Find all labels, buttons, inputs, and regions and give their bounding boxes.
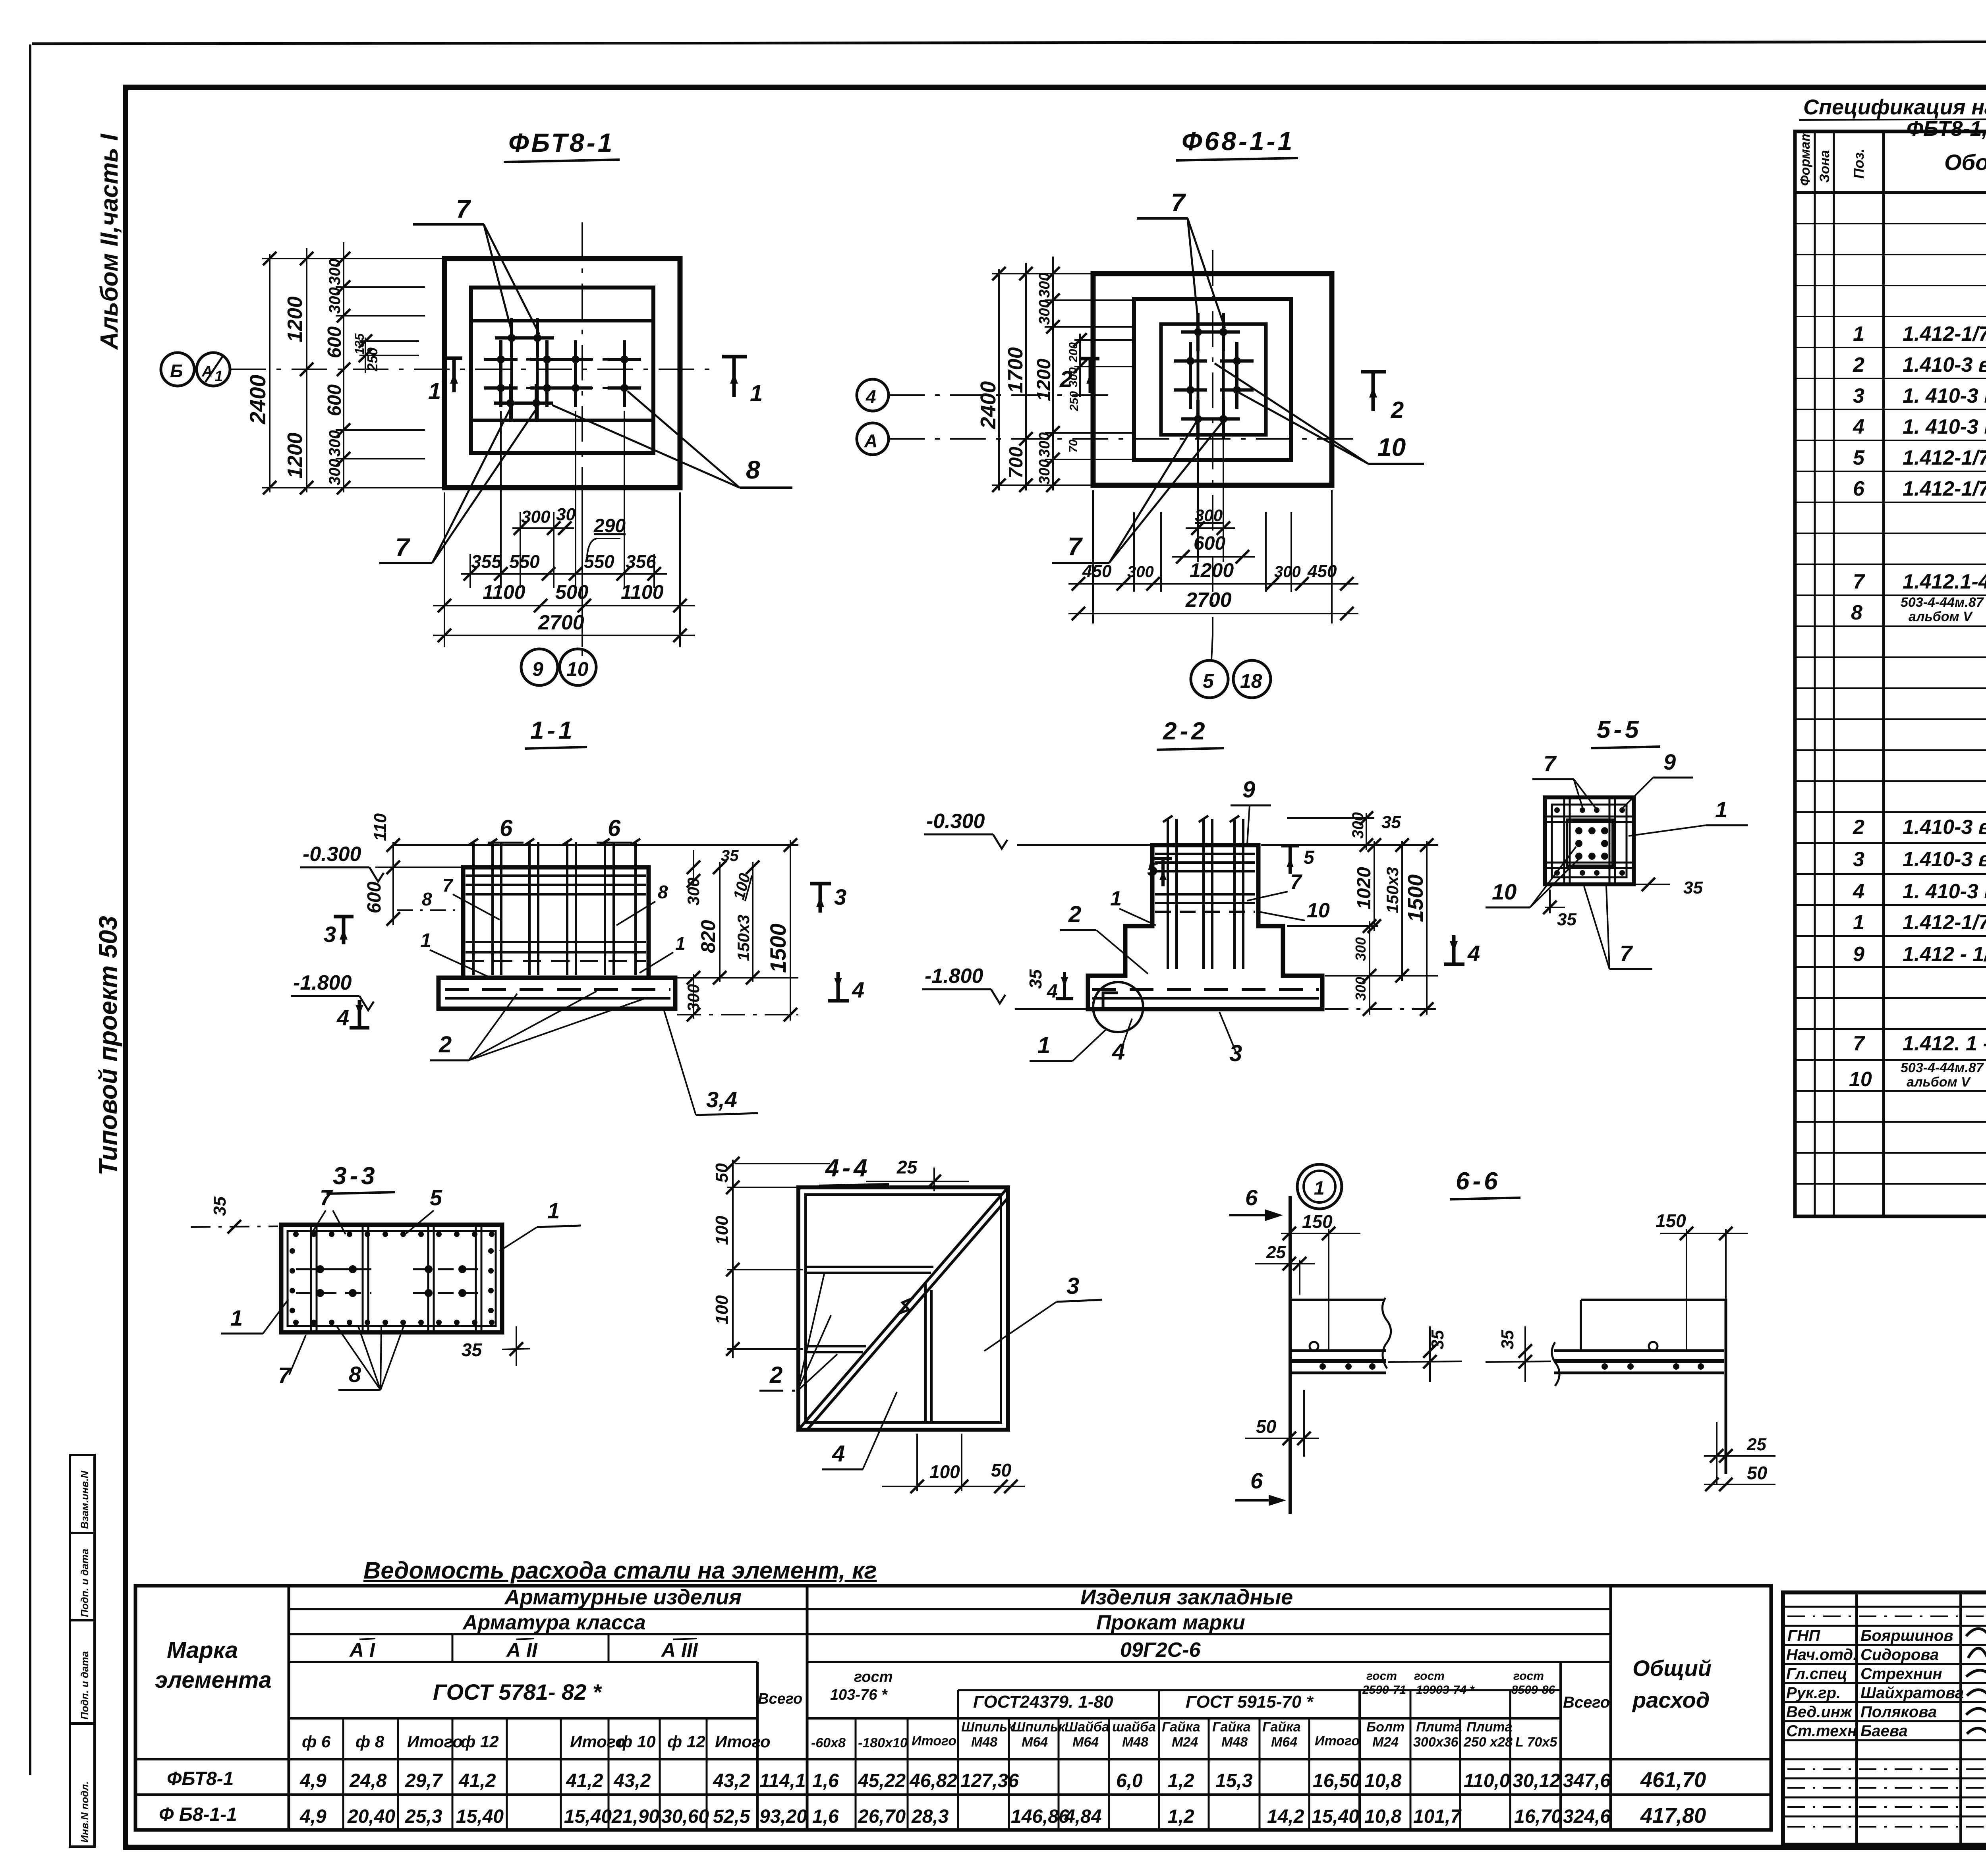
svg-text:Плита: Плита — [1416, 1720, 1462, 1735]
svg-text:2400: 2400 — [245, 374, 270, 425]
svg-text:7: 7 — [1620, 941, 1633, 966]
svg-text:1.410-3 вып.1: 1.410-3 вып.1 — [1903, 848, 1986, 871]
svg-text:450: 450 — [1307, 562, 1337, 581]
svg-text:6: 6 — [1250, 1468, 1263, 1493]
svg-text:5: 5 — [1304, 847, 1315, 868]
svg-text:Ст.техн: Ст.техн — [1786, 1722, 1857, 1740]
svg-text:Плита: Плита — [1466, 1720, 1513, 1735]
svg-text:150х3: 150х3 — [734, 915, 753, 961]
svg-text:А II: А II — [506, 1639, 538, 1661]
svg-text:М48: М48 — [971, 1735, 997, 1750]
svg-text:Итого: Итого — [912, 1733, 956, 1749]
svg-text:4,9: 4,9 — [299, 1770, 326, 1791]
svg-text:6,0: 6,0 — [1116, 1770, 1143, 1791]
svg-text:3: 3 — [1229, 1040, 1242, 1066]
svg-text:Гайка: Гайка — [1162, 1720, 1200, 1735]
svg-text:150х3: 150х3 — [1383, 867, 1402, 913]
svg-text:8: 8 — [658, 882, 668, 902]
svg-text:Бояршинов: Бояршинов — [1860, 1627, 1953, 1644]
svg-text:24,8: 24,8 — [349, 1770, 387, 1791]
svg-text:26,70: 26,70 — [858, 1806, 906, 1827]
svg-text:ФБТ8-1: ФБТ8-1 — [508, 128, 614, 157]
svg-text:4: 4 — [1047, 981, 1058, 1002]
svg-text:93,20: 93,20 — [759, 1806, 807, 1827]
svg-text:8: 8 — [746, 455, 760, 484]
svg-text:100: 100 — [712, 1216, 732, 1245]
svg-text:3,4: 3,4 — [706, 1087, 737, 1112]
svg-text:4,84: 4,84 — [1064, 1806, 1101, 1827]
svg-text:300: 300 — [1352, 977, 1369, 1001]
svg-text:1.410-3 вып.1: 1.410-3 вып.1 — [1903, 353, 1986, 376]
svg-text:1700: 1700 — [1004, 347, 1027, 393]
svg-text:Гл.спец: Гл.спец — [1786, 1665, 1847, 1683]
svg-text:А III: А III — [661, 1639, 698, 1661]
svg-text:Всего: Всего — [758, 1691, 802, 1707]
svg-text:Итого: Итого — [407, 1732, 463, 1751]
svg-text:4-4: 4-4 — [825, 1154, 871, 1182]
svg-text:127,36: 127,36 — [960, 1770, 1019, 1791]
svg-text:1500: 1500 — [765, 923, 790, 973]
svg-text:Шайхратова: Шайхратова — [1860, 1684, 1964, 1702]
svg-text:300: 300 — [326, 430, 344, 457]
svg-text:М48: М48 — [1122, 1735, 1148, 1750]
svg-text:гост: гост — [1366, 1669, 1397, 1683]
svg-text:1020: 1020 — [1354, 867, 1375, 909]
svg-text:7: 7 — [1853, 570, 1865, 593]
svg-text:3: 3 — [1853, 848, 1864, 871]
svg-text:300: 300 — [1195, 506, 1223, 525]
svg-text:8509-86: 8509-86 — [1511, 1683, 1555, 1697]
svg-text:М64: М64 — [1022, 1735, 1048, 1750]
svg-text:35: 35 — [1026, 969, 1045, 989]
svg-text:-0.300: -0.300 — [303, 843, 361, 866]
svg-text:1: 1 — [750, 380, 763, 406]
svg-text:820: 820 — [697, 920, 719, 953]
svg-text:гост: гост — [854, 1669, 893, 1685]
svg-text:300: 300 — [1036, 459, 1053, 484]
svg-text:300: 300 — [1067, 367, 1080, 387]
svg-text:30: 30 — [556, 505, 576, 524]
svg-text:Шайба: Шайба — [1064, 1720, 1109, 1735]
svg-text:250 х28: 250 х28 — [1463, 1735, 1513, 1750]
svg-text:35: 35 — [210, 1197, 230, 1216]
svg-text:гост: гост — [1414, 1669, 1445, 1683]
svg-text:ф 10: ф 10 — [618, 1732, 656, 1751]
svg-text:М64: М64 — [1072, 1735, 1099, 1750]
svg-text:3: 3 — [834, 884, 846, 909]
svg-text:Гайка: Гайка — [1262, 1720, 1301, 1735]
svg-text:8: 8 — [349, 1362, 361, 1387]
svg-text:4,9: 4,9 — [299, 1806, 326, 1827]
svg-text:ГОСТ 5915-70 *: ГОСТ 5915-70 * — [1186, 1692, 1314, 1712]
svg-text:35: 35 — [1557, 910, 1576, 929]
svg-text:5: 5 — [1853, 446, 1865, 469]
svg-text:Инв.N подл.: Инв.N подл. — [79, 1781, 91, 1843]
svg-text:290: 290 — [593, 515, 626, 537]
svg-text:М24: М24 — [1172, 1735, 1198, 1750]
svg-text:1200: 1200 — [284, 296, 307, 342]
svg-text:356: 356 — [626, 551, 656, 572]
svg-text:1: 1 — [420, 929, 431, 952]
svg-text:1: 1 — [428, 378, 441, 404]
svg-text:324,6: 324,6 — [1563, 1806, 1611, 1827]
svg-text:1,2: 1,2 — [1168, 1806, 1194, 1827]
svg-text:Арматурные изделия: Арматурные изделия — [504, 1585, 742, 1609]
svg-text:4: 4 — [1853, 880, 1864, 903]
svg-text:503-4-44м.87: 503-4-44м.87 — [1901, 1060, 1984, 1075]
svg-text:5: 5 — [1147, 859, 1158, 880]
svg-text:1500: 1500 — [1404, 874, 1428, 922]
svg-text:550: 550 — [509, 551, 540, 572]
svg-text:Сидорова: Сидорова — [1860, 1646, 1939, 1664]
svg-text:100: 100 — [730, 871, 754, 901]
svg-text:1100: 1100 — [483, 581, 525, 603]
svg-text:600: 600 — [324, 326, 345, 358]
svg-text:-1.800: -1.800 — [293, 971, 352, 994]
svg-text:25: 25 — [896, 1157, 918, 1177]
svg-text:300: 300 — [1036, 300, 1053, 325]
svg-text:1: 1 — [1853, 911, 1864, 934]
svg-text:4: 4 — [336, 1005, 349, 1030]
svg-text:1200: 1200 — [284, 432, 307, 479]
svg-text:ф 12: ф 12 — [667, 1732, 705, 1751]
svg-text:Изделия закладные: Изделия закладные — [1080, 1585, 1293, 1609]
svg-text:1.412.1-4.: 1.412.1-4. — [1903, 570, 1986, 593]
svg-text:2: 2 — [1853, 816, 1864, 839]
svg-text:2700: 2700 — [1185, 589, 1232, 612]
svg-text:10: 10 — [1492, 879, 1517, 904]
svg-text:1.412 - 1/77 вып.3: 1.412 - 1/77 вып.3 — [1903, 943, 1986, 966]
svg-text:8: 8 — [1851, 601, 1862, 624]
svg-text:114,1: 114,1 — [759, 1770, 806, 1791]
svg-text:7: 7 — [320, 1185, 333, 1210]
svg-text:300: 300 — [684, 878, 703, 905]
svg-text:М24: М24 — [1372, 1735, 1399, 1750]
svg-text:700: 700 — [1006, 447, 1027, 479]
svg-text:7: 7 — [1544, 751, 1557, 776]
svg-text:Б: Б — [170, 361, 183, 381]
svg-text:Нач.отд.: Нач.отд. — [1786, 1646, 1857, 1664]
svg-text:ф 6: ф 6 — [302, 1732, 331, 1751]
svg-text:1,6: 1,6 — [812, 1806, 839, 1827]
svg-text:150: 150 — [1656, 1210, 1686, 1231]
svg-text:6: 6 — [608, 815, 621, 841]
svg-text:1. 410-3 вып.1: 1. 410-3 вып.1 — [1903, 384, 1986, 407]
svg-text:100: 100 — [929, 1461, 960, 1482]
svg-text:3: 3 — [1066, 1273, 1079, 1299]
svg-text:15,40: 15,40 — [564, 1806, 612, 1827]
svg-text:300: 300 — [1036, 432, 1053, 457]
svg-text:21,90: 21,90 — [611, 1806, 659, 1827]
svg-text:461,70: 461,70 — [1640, 1768, 1706, 1792]
svg-text:5: 5 — [430, 1185, 442, 1210]
svg-text:10,8: 10,8 — [1364, 1806, 1402, 1827]
svg-text:1: 1 — [1715, 797, 1727, 822]
svg-text:1-1: 1-1 — [530, 717, 576, 744]
svg-text:30,60: 30,60 — [661, 1806, 709, 1827]
svg-text:347,6: 347,6 — [1563, 1770, 1611, 1791]
svg-text:Шпильк: Шпильк — [1012, 1720, 1066, 1735]
svg-text:35: 35 — [1381, 813, 1401, 832]
svg-text:-180х10: -180х10 — [858, 1735, 908, 1751]
svg-text:7: 7 — [395, 533, 411, 562]
svg-text:9: 9 — [1663, 749, 1676, 774]
svg-text:15,40: 15,40 — [1312, 1806, 1359, 1827]
svg-text:103-76 *: 103-76 * — [830, 1687, 888, 1703]
svg-text:600: 600 — [1194, 533, 1225, 554]
svg-text:1: 1 — [214, 368, 223, 385]
svg-text:Прокат марки: Прокат марки — [1096, 1611, 1245, 1634]
svg-text:Итого: Итого — [570, 1732, 626, 1751]
svg-text:1200: 1200 — [1190, 559, 1234, 581]
svg-text:А: А — [201, 363, 213, 380]
svg-text:417,80: 417,80 — [1640, 1804, 1706, 1828]
svg-text:ф 8: ф 8 — [355, 1732, 384, 1751]
svg-text:1: 1 — [230, 1305, 243, 1330]
svg-text:Поз.: Поз. — [1851, 149, 1867, 179]
svg-text:-0.300: -0.300 — [926, 810, 985, 833]
svg-text:600: 600 — [364, 882, 385, 913]
svg-text:09Г2С-6: 09Г2С-6 — [1120, 1639, 1201, 1662]
svg-text:10: 10 — [1307, 899, 1330, 922]
svg-text:А I: А I — [349, 1639, 375, 1661]
svg-text:1100: 1100 — [621, 581, 664, 603]
svg-text:70: 70 — [1067, 439, 1080, 453]
svg-text:Ф Б8-1-1: Ф Б8-1-1 — [159, 1804, 237, 1825]
svg-text:101,7: 101,7 — [1413, 1806, 1462, 1827]
svg-text:600: 600 — [324, 384, 345, 416]
svg-text:35: 35 — [1498, 1330, 1517, 1349]
svg-text:45,22: 45,22 — [858, 1770, 906, 1791]
svg-text:1,6: 1,6 — [812, 1770, 839, 1791]
svg-text:43,2: 43,2 — [713, 1770, 750, 1791]
svg-text:ГОСТ 5781- 82 *: ГОСТ 5781- 82 * — [433, 1679, 602, 1704]
svg-text:1.412-1/77 вып.3: 1.412-1/77 вып.3 — [1903, 477, 1986, 500]
svg-text:7: 7 — [442, 875, 454, 896]
svg-text:Баева: Баева — [1860, 1722, 1908, 1740]
svg-text:110,0: 110,0 — [1464, 1770, 1510, 1791]
svg-text:14,2: 14,2 — [1267, 1806, 1304, 1827]
svg-text:Гайка: Гайка — [1212, 1720, 1251, 1735]
svg-text:ф 12: ф 12 — [461, 1732, 499, 1751]
svg-text:2400: 2400 — [976, 381, 1000, 429]
svg-text:7: 7 — [1068, 532, 1083, 561]
svg-text:-60х8: -60х8 — [811, 1735, 846, 1751]
svg-text:300: 300 — [521, 507, 551, 527]
svg-text:2: 2 — [769, 1362, 782, 1388]
svg-text:50: 50 — [712, 1163, 732, 1183]
svg-text:300: 300 — [326, 459, 344, 485]
svg-text:16,50: 16,50 — [1313, 1770, 1360, 1791]
svg-text:Типовой проект 503: Типовой проект 503 — [94, 916, 122, 1175]
svg-text:35: 35 — [1428, 1330, 1447, 1349]
svg-text:41,2: 41,2 — [566, 1770, 603, 1791]
svg-text:15,40: 15,40 — [456, 1806, 504, 1827]
svg-text:25,3: 25,3 — [405, 1806, 442, 1827]
svg-text:Шпильк: Шпильк — [961, 1720, 1015, 1735]
svg-text:5: 5 — [1203, 670, 1214, 692]
svg-text:Вед.инж: Вед.инж — [1786, 1703, 1853, 1721]
svg-text:7: 7 — [1290, 870, 1302, 894]
svg-text:100: 100 — [712, 1295, 732, 1324]
svg-text:3: 3 — [324, 922, 336, 947]
svg-text:Итого: Итого — [715, 1732, 771, 1751]
svg-text:М64: М64 — [1271, 1735, 1297, 1750]
svg-text:Подп. и дата: Подп. и дата — [79, 1549, 91, 1617]
svg-text:300х36: 300х36 — [1413, 1735, 1459, 1750]
svg-text:8: 8 — [422, 889, 432, 909]
svg-text:-1.800: -1.800 — [925, 965, 983, 988]
svg-text:9: 9 — [1242, 777, 1255, 803]
svg-text:200: 200 — [1067, 342, 1080, 363]
svg-text:300: 300 — [326, 259, 344, 285]
svg-text:503-4-44м.87: 503-4-44м.87 — [1901, 595, 1984, 610]
svg-text:9: 9 — [532, 658, 543, 680]
svg-text:250: 250 — [364, 347, 381, 372]
svg-text:Подп. и дата: Подп. и дата — [79, 1651, 91, 1720]
svg-text:18: 18 — [1240, 670, 1262, 692]
svg-text:Обозначение: Обозначение — [1944, 150, 1986, 175]
svg-text:52,5: 52,5 — [713, 1806, 751, 1827]
svg-text:35: 35 — [721, 847, 739, 865]
svg-text:Спецификация на монолитные жел: Спецификация на монолитные железобетонны… — [1803, 95, 1986, 119]
svg-text:20,40: 20,40 — [347, 1806, 395, 1827]
svg-text:300: 300 — [1352, 937, 1369, 961]
svg-text:L 70х5: L 70х5 — [1515, 1735, 1557, 1750]
svg-text:1.412-1/77 вып.3: 1.412-1/77 вып.3 — [1903, 446, 1986, 469]
svg-text:1: 1 — [1037, 1033, 1050, 1058]
svg-text:2590-71: 2590-71 — [1362, 1683, 1406, 1697]
svg-text:50: 50 — [991, 1460, 1012, 1480]
svg-text:25: 25 — [1266, 1243, 1286, 1262]
svg-text:Взам.инв.N: Взам.инв.N — [79, 1471, 91, 1529]
svg-text:1: 1 — [675, 933, 686, 954]
svg-text:110: 110 — [371, 813, 390, 841]
svg-text:35: 35 — [462, 1339, 483, 1360]
svg-text:альбом V: альбом V — [1907, 1075, 1971, 1090]
svg-text:300: 300 — [684, 984, 703, 1012]
svg-text:4: 4 — [1467, 941, 1480, 966]
svg-text:1: 1 — [1314, 1178, 1325, 1199]
svg-text:2700: 2700 — [538, 611, 584, 634]
svg-text:4: 4 — [1853, 415, 1864, 438]
svg-text:4: 4 — [832, 1441, 845, 1467]
svg-text:Ведомость расхода стали: Ведомость расхода стали на элемент, кг — [363, 1557, 877, 1584]
svg-text:расход: расход — [1632, 1687, 1710, 1712]
svg-text:Всего: Всего — [1563, 1694, 1610, 1711]
svg-text:2: 2 — [439, 1032, 452, 1058]
svg-text:43,2: 43,2 — [613, 1770, 651, 1791]
svg-text:146,86: 146,86 — [1011, 1806, 1069, 1827]
svg-text:Болт: Болт — [1366, 1720, 1404, 1735]
svg-text:46,82: 46,82 — [909, 1770, 957, 1791]
svg-text:10: 10 — [1849, 1068, 1872, 1091]
svg-text:355: 355 — [471, 551, 502, 572]
svg-text:Полякова: Полякова — [1860, 1703, 1937, 1721]
svg-text:19903-74 *: 19903-74 * — [1416, 1683, 1475, 1697]
svg-text:6-6: 6-6 — [1456, 1168, 1501, 1195]
svg-text:Итого: Итого — [1315, 1733, 1360, 1749]
svg-text:1.410-3 вып.1: 1.410-3 вып.1 — [1903, 816, 1986, 839]
svg-text:альбом V: альбом V — [1909, 609, 1973, 624]
svg-text:Зона: Зона — [1817, 150, 1832, 183]
svg-text:300: 300 — [1349, 812, 1367, 839]
svg-text:1: 1 — [1853, 322, 1864, 345]
svg-text:5-5: 5-5 — [1597, 716, 1642, 743]
svg-text:50: 50 — [1747, 1463, 1768, 1483]
svg-text:2: 2 — [1391, 397, 1404, 423]
svg-text:4: 4 — [852, 977, 864, 1002]
svg-text:Ф68-1-1: Ф68-1-1 — [1182, 126, 1294, 156]
svg-text:500: 500 — [555, 581, 589, 603]
svg-text:1. 410-3 вып.1: 1. 410-3 вып.1 — [1903, 880, 1986, 903]
svg-text:Рук.гр.: Рук.гр. — [1786, 1684, 1841, 1702]
svg-text:41,2: 41,2 — [458, 1770, 496, 1791]
svg-text:2: 2 — [1853, 353, 1864, 376]
svg-text:15,3: 15,3 — [1215, 1770, 1253, 1791]
svg-text:1.412-1/77 вып.3: 1.412-1/77 вып.3 — [1903, 911, 1986, 934]
svg-text:Альбом II,часть I: Альбом II,часть I — [96, 133, 123, 350]
svg-text:7: 7 — [278, 1363, 292, 1388]
svg-text:28,3: 28,3 — [911, 1806, 949, 1827]
svg-text:1.412. 1 - 4.: 1.412. 1 - 4. — [1903, 1032, 1986, 1055]
svg-text:300: 300 — [1127, 563, 1154, 581]
svg-text:550: 550 — [584, 551, 614, 572]
svg-text:7: 7 — [456, 195, 471, 223]
svg-text:ГНП: ГНП — [1787, 1627, 1820, 1644]
svg-text:4: 4 — [865, 386, 876, 407]
svg-text:А: А — [864, 430, 877, 451]
svg-text:Арматура класса: Арматура класса — [462, 1611, 646, 1634]
svg-text:2: 2 — [1068, 901, 1081, 927]
svg-text:Стрехнин: Стрехнин — [1860, 1665, 1942, 1683]
svg-text:6: 6 — [500, 815, 513, 841]
svg-text:1: 1 — [547, 1198, 560, 1223]
svg-text:35: 35 — [1683, 878, 1703, 897]
svg-text:7: 7 — [1171, 188, 1186, 217]
svg-text:ФБТ8-1: ФБТ8-1 — [167, 1768, 234, 1789]
svg-text:29,7: 29,7 — [405, 1770, 443, 1791]
svg-text:30,12: 30,12 — [1513, 1770, 1560, 1791]
svg-text:гост: гост — [1513, 1669, 1544, 1683]
svg-text:10: 10 — [566, 658, 589, 680]
svg-text:1,2: 1,2 — [1168, 1770, 1194, 1791]
svg-text:Марка: Марка — [167, 1637, 238, 1663]
svg-text:6: 6 — [1245, 1185, 1258, 1210]
svg-text:250: 250 — [1068, 391, 1081, 411]
svg-text:300: 300 — [326, 287, 344, 314]
svg-text:300: 300 — [1274, 563, 1301, 581]
svg-text:10,8: 10,8 — [1364, 1770, 1402, 1791]
svg-text:450: 450 — [1082, 562, 1112, 581]
svg-text:3-3: 3-3 — [333, 1162, 378, 1190]
svg-text:шайба: шайба — [1112, 1720, 1156, 1735]
svg-text:Формат: Формат — [1798, 129, 1813, 186]
svg-text:9: 9 — [1853, 943, 1864, 966]
svg-text:25: 25 — [1746, 1435, 1766, 1454]
svg-text:Общий: Общий — [1632, 1656, 1712, 1681]
svg-text:300: 300 — [1036, 273, 1053, 298]
svg-text:М48: М48 — [1221, 1735, 1248, 1750]
svg-text:16,70: 16,70 — [1514, 1806, 1562, 1827]
svg-text:6: 6 — [1853, 477, 1865, 500]
svg-text:2-2: 2-2 — [1163, 718, 1208, 745]
svg-text:1200: 1200 — [1034, 359, 1055, 401]
svg-text:50: 50 — [1256, 1416, 1277, 1437]
svg-text:элемента: элемента — [155, 1667, 272, 1693]
svg-text:1.412-1/77 вып.3: 1.412-1/77 вып.3 — [1903, 322, 1986, 345]
svg-text:150: 150 — [1302, 1211, 1333, 1232]
